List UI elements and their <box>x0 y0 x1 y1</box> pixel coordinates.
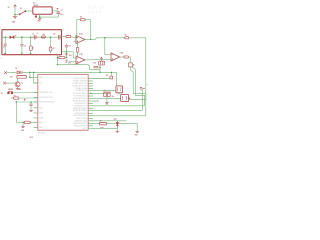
junction J20 <box>30 101 32 103</box>
net flag ref mark <box>66 61 68 63</box>
junction J6 <box>30 36 32 38</box>
wire feedback left top <box>77 19 81 21</box>
ground G5 <box>21 125 25 128</box>
wire to C7 <box>4 37 6 44</box>
wire row to IC pin <box>16 101 38 103</box>
diode D1 pair <box>10 36 14 39</box>
pin stub right PD3(PCINT19/INT1) <box>88 100 93 102</box>
wire IC pin row 120 <box>93 120 126 122</box>
wire rail1 main <box>22 71 117 73</box>
wire R5 to right vertical net <box>129 38 146 116</box>
svg-text:T2: T2 <box>21 83 23 85</box>
pin stub right PC2(ADC2/PCINT10) <box>88 83 93 85</box>
pin stub left AREF <box>34 112 38 114</box>
svg-text:▌▄▌▌ ▌▀▌: ▌▄▌▌ ▌▀▌ <box>88 10 102 14</box>
svg-text:C8: C8 <box>24 46 26 48</box>
junction feedback minus <box>76 37 77 38</box>
wire regulator out to C1 <box>52 10 58 12</box>
op-amp IC3D input marks <box>77 58 78 63</box>
capacitor C13 <box>29 104 32 106</box>
junction J16 <box>33 72 35 74</box>
pin stub right PB5(SCK/PCINT5) <box>88 125 93 127</box>
wire R13 to IC pin <box>30 121 38 123</box>
junction J12 <box>66 51 68 53</box>
wire IC xtal1 <box>93 92 103 94</box>
wire battery to node <box>14 9 16 15</box>
svg-text:PD0(PCINT16/RXD): PD0(PCINT16/RXD) <box>73 93 87 95</box>
battery G1 symbol <box>13 17 17 19</box>
svg-text:2.5V: 2.5V <box>68 63 71 65</box>
capacitor C10 series <box>58 35 60 39</box>
wire node to switch <box>15 14 20 16</box>
wire R7 to IC pin <box>19 97 38 99</box>
pin dot reset net <box>19 89 20 90</box>
junction J5 <box>21 36 23 38</box>
junction J8 <box>104 37 106 39</box>
wire T2 emitter to gnd <box>17 87 19 89</box>
pin stub right PC0(ADC0/PCINT8) <box>88 78 93 80</box>
junction J4c <box>30 53 31 54</box>
svg-text:C11: C11 <box>53 48 56 50</box>
ground G4 bar2 <box>106 103 108 105</box>
svg-text:+: + <box>147 84 148 86</box>
ground G4 <box>105 101 109 104</box>
wire C12 top stub <box>65 43 67 45</box>
svg-text:GND: GND <box>21 130 24 132</box>
wire opamp1 plus down <box>77 41 79 47</box>
junction J4b <box>21 53 22 54</box>
svg-text:PD1(PCINT17/TXD): PD1(PCINT17/TXD) <box>73 96 87 98</box>
svg-text:C1: C1 <box>61 10 63 12</box>
wire opamp2 plus stub <box>69 61 77 63</box>
regulator gnd pad square <box>35 16 37 18</box>
junction J14 <box>99 72 101 74</box>
wire C7 to module gnd <box>4 46 6 54</box>
pin stub right PB4(MISO/PCINT4) <box>88 122 93 124</box>
svg-text:C10: C10 <box>53 33 56 35</box>
svg-text:D3: D3 <box>15 68 17 70</box>
junction J11 <box>57 64 58 65</box>
receiver module box U2 <box>2 30 62 55</box>
wire R12 to opamp2 <box>77 52 79 56</box>
capacitor C7 <box>4 44 7 46</box>
wire LED cathode to IC <box>93 127 118 129</box>
svg-text:78L05: 78L05 <box>33 5 38 7</box>
svg-text:S1: S1 <box>20 8 22 10</box>
pin stub right PD1(PCINT17/TXD) <box>88 95 93 97</box>
pin stub right PC1(ADC1/PCINT9) <box>88 80 93 82</box>
junction J10 <box>66 57 68 59</box>
junction J7 <box>50 36 52 38</box>
capacitor C1 polarized <box>57 8 61 14</box>
wire to R11 left <box>57 57 58 59</box>
junction feedback output <box>90 39 91 40</box>
wire module bottom pin stub <box>56 55 58 58</box>
pin stub right PD7(PCINT23/AIN1) <box>88 109 93 111</box>
op-amp IC3A input marks <box>77 38 78 42</box>
svg-text:100u: 100u <box>60 14 63 16</box>
wire C11 to module gnd <box>50 51 52 53</box>
svg-text:PD4(PCINT20/T0): PD4(PCINT20/T0) <box>75 103 88 105</box>
inductor L1 <box>30 46 33 51</box>
push button S2 <box>8 91 13 94</box>
pin stub right PB1(OC1A/PCINT1) <box>88 114 93 116</box>
op-amp IC3B input marks <box>112 55 113 60</box>
wire J8 down to opamp3 <box>104 38 106 55</box>
svg-text:R9: R9 <box>43 34 45 36</box>
R13 pin lead right <box>30 121 32 123</box>
pin dot net right <box>143 88 144 89</box>
transistor box T1 inner <box>123 96 127 100</box>
svg-text:R7: R7 <box>14 95 16 97</box>
ground G9 <box>116 130 120 133</box>
svg-text:PB5(SCK/PCINT5): PB5(SCK/PCINT5) <box>74 125 87 127</box>
wire opamp3 output <box>120 56 124 58</box>
wire return row 3 <box>93 89 142 111</box>
pin stub left ADC6 <box>34 121 38 123</box>
resistor R13 <box>24 121 30 123</box>
svg-text:22p: 22p <box>112 96 114 98</box>
crystal Q1 <box>103 92 111 96</box>
wire lower rail to vcc cluster <box>57 65 100 70</box>
wire C1 bottom to gnd rail <box>57 14 59 18</box>
pin stub right PD4(PCINT20/T0) <box>88 103 93 105</box>
pin dot T1 <box>129 98 130 99</box>
wire IC top pin to JP2 <box>93 78 110 80</box>
wire IC stub row <box>93 100 99 102</box>
svg-text:Q1: Q1 <box>104 90 106 92</box>
diode D5 square <box>129 63 133 67</box>
wire OK1 to T2 <box>17 78 19 81</box>
wire vcc cluster to rail <box>99 65 101 72</box>
LED D4 <box>116 121 119 128</box>
pin stub right PD5(PCINT21/T1) <box>88 105 93 107</box>
svg-text:U2: U2 <box>0 57 2 59</box>
pin dot D5 <box>133 64 134 65</box>
svg-text:RESET: RESET <box>8 89 13 91</box>
ground G8 <box>135 130 139 133</box>
wire to T2 base <box>6 82 15 84</box>
wire D5 down right staircase <box>131 67 146 99</box>
wire R7 left stub <box>11 97 14 99</box>
R13 pin lead left <box>23 121 25 123</box>
wire LED to gnd <box>116 128 118 131</box>
wire gnd rail under regulator <box>40 16 59 18</box>
connector box SV1 inner <box>118 87 121 91</box>
pin stub left AVCC <box>34 107 38 109</box>
junction J23 <box>22 122 23 123</box>
wire R8 to LED <box>106 123 115 125</box>
wire to C11 <box>50 37 52 47</box>
svg-text:GND: GND <box>37 21 40 23</box>
svg-text:PB2(OC1B/SS): PB2(OC1B/SS) <box>76 118 87 120</box>
svg-text:OK1: OK1 <box>10 77 13 79</box>
svg-text:C9: C9 <box>32 33 34 35</box>
ground G6 <box>29 109 33 112</box>
wire switch to regulator <box>26 10 33 12</box>
optocoupler OK1 <box>17 75 26 78</box>
wire R11 right <box>65 57 67 59</box>
wire rail2 to IC pin <box>30 76 38 78</box>
svg-text:PB4(MISO/PCINT4): PB4(MISO/PCINT4) <box>73 123 87 125</box>
resistor R4 <box>66 36 71 38</box>
junction J15 <box>29 72 31 74</box>
net flag X3 <box>3 82 6 85</box>
wire to R13 <box>16 121 24 123</box>
resistor R8 <box>100 122 107 125</box>
C9 pin lead left <box>32 36 35 38</box>
wire IC to T1 box <box>93 97 121 99</box>
junction J4 <box>4 53 6 55</box>
wire module signal line <box>2 36 61 38</box>
pin stub left PB7(XTAL2/TOSC2) <box>34 97 38 99</box>
capacitor C9 series <box>34 35 36 39</box>
junction J9 <box>57 57 59 59</box>
wire Q1 to gnd <box>106 96 108 102</box>
resistor R7 <box>13 97 18 99</box>
jumper JP2 <box>110 76 113 79</box>
wire branch to IC pin <box>34 82 38 84</box>
pin stub right PC4(ADC4/SDA) <box>88 88 93 90</box>
wire rail1 to rail2 <box>29 72 31 77</box>
supply arrow VCC2 <box>140 87 142 90</box>
pin stub right PB0(PCINT0/ICP) <box>88 112 93 114</box>
connector box SV1 <box>116 86 123 93</box>
wire down from R11 left <box>56 58 58 65</box>
svg-text:PD5(PCINT21/T1): PD5(PCINT21/T1) <box>75 105 88 107</box>
svg-text:R2: R2 <box>80 17 82 19</box>
pin stub right PD2(PCINT18/INT0) <box>88 97 93 99</box>
wire R6 to D5 <box>129 57 131 63</box>
wire to C13 <box>30 102 32 104</box>
junction J17 <box>29 77 31 79</box>
wire C13 to gnd <box>30 106 32 110</box>
net flag X1 <box>4 71 7 74</box>
pin stub right PD6(PCINT22/AIN0) <box>88 107 93 109</box>
microcontroller IC1 box <box>38 74 88 130</box>
pin stub left GND <box>34 126 38 128</box>
wire rail1 branch down <box>33 72 35 83</box>
capacitor C12 <box>65 45 68 47</box>
op-amp IC3B <box>111 53 120 61</box>
wire LED row to right gnd <box>119 124 137 131</box>
op-amp IC3A <box>76 35 85 43</box>
wire rail1 to JP2 <box>110 72 112 76</box>
wire rail1 left <box>7 71 17 73</box>
wire S2 to IC reset <box>13 92 38 94</box>
supply mark on reset row <box>24 99 26 101</box>
svg-text:PC6: PC6 <box>39 77 42 79</box>
wire IC to R8 <box>93 122 100 124</box>
wire return row 2 <box>93 105 145 107</box>
junction J18 <box>111 72 112 73</box>
wire C12 to pin wire <box>65 47 67 52</box>
wire R4 to opamp1 minus <box>71 36 76 39</box>
ground G3 <box>65 54 69 55</box>
svg-text:▌▌▄▀▌ ▀▄▌▌: ▌▌▄▀▌ ▀▄▌▌ <box>88 5 105 9</box>
ground G2 <box>38 19 42 20</box>
wire staircase second <box>132 67 145 106</box>
svg-text:PB0(PCINT0/ICP): PB0(PCINT0/ICP) <box>75 113 88 115</box>
wire to L1 <box>30 37 32 46</box>
junction J19 <box>15 101 17 103</box>
battery stub <box>14 15 16 17</box>
junction J3 <box>4 36 6 38</box>
wire opamp1 plus stub <box>74 40 76 42</box>
wire opamp3 minus <box>105 54 111 56</box>
svg-text:PD2(PCINT18/INT0): PD2(PCINT18/INT0) <box>73 98 87 100</box>
pin stub left PB6(XTAL1/TOSC1) <box>34 92 38 94</box>
pin stub left VCC <box>34 82 38 84</box>
pin stub right ADC7 <box>88 127 93 129</box>
pin stub left PC6(RESET/PCINT14) <box>34 101 38 103</box>
svg-text:R10: R10 <box>93 62 96 64</box>
svg-text:D9: D9 <box>15 35 17 37</box>
svg-text:GND: GND <box>69 55 72 57</box>
wire down left column <box>15 102 17 122</box>
ground G7 <box>16 88 20 91</box>
capacitor C8 <box>20 44 23 46</box>
pin stub right PB3(MOSI/OC2A) <box>88 120 93 122</box>
wire opamp2 minus stub <box>73 57 76 59</box>
wire to gnd bottom left <box>22 122 24 126</box>
junction J1 <box>14 14 16 16</box>
C9 pin lead right <box>36 36 38 38</box>
wire IC to T1 box top <box>93 89 116 91</box>
transistor T2 <box>15 82 20 87</box>
wire opamp2 out to opamp3 <box>85 58 111 61</box>
wire C1 top stub <box>57 11 59 12</box>
svg-text:░░░░: ░░░░ <box>120 5 127 8</box>
junction J21 <box>90 93 91 94</box>
wire C8 to module gnd <box>21 46 23 54</box>
svg-text:C12: C12 <box>68 46 71 48</box>
wire feedback right vertical <box>90 20 92 40</box>
component X2 bar <box>94 66 98 68</box>
transistor box T1 <box>121 94 129 101</box>
svg-text:PD3(PCINT19/INT1): PD3(PCINT19/INT1) <box>73 101 87 103</box>
switch S1 <box>19 11 26 15</box>
wire feedback right top <box>85 19 91 21</box>
wire output to R5 <box>95 38 125 40</box>
svg-text:R5: R5 <box>125 35 127 37</box>
supply arrow VCC1 <box>100 57 103 61</box>
resistor R6 <box>124 56 129 58</box>
svg-text:S2: S2 <box>1 93 3 95</box>
wire L1 to module gnd <box>30 51 32 54</box>
op-amp IC3D <box>76 56 85 64</box>
wire regulator gnd pin <box>39 14 41 17</box>
svg-text:PC6(RESET/PCINT14): PC6(RESET/PCINT14) <box>39 102 55 104</box>
resistor C11 <box>49 47 52 51</box>
supply +9V arrow P1 <box>14 5 17 9</box>
wire feedback left vertical <box>76 20 78 38</box>
pin stub right PC3(ADC3/PCINT11) <box>88 85 93 87</box>
wire SV1 to T1 <box>118 93 120 95</box>
svg-text:1n: 1n <box>37 33 39 35</box>
resistor R9 <box>41 36 45 38</box>
wire module pin to opamp2 <box>62 51 73 53</box>
wire return row 4 <box>93 115 146 117</box>
wire J12 down to R11 <box>66 52 68 58</box>
junction J13 <box>99 67 101 69</box>
trimmer R10 <box>99 61 105 65</box>
svg-text:JP2: JP2 <box>106 75 109 77</box>
wire to opamp2 minus <box>72 52 74 58</box>
wire rail1 down to T1 box <box>116 72 118 86</box>
svg-text:GND: GND <box>135 134 138 136</box>
resistor R2 <box>80 19 85 21</box>
diode D3 <box>17 71 22 74</box>
pin stub right PB2(OC1B/SS) <box>88 117 93 119</box>
pin stub right PD0(PCINT16/RXD) <box>88 92 93 94</box>
wire opamp1 output <box>85 39 95 41</box>
voltage regulator IC2 78L05 <box>33 7 52 14</box>
resistor R5 <box>125 37 129 39</box>
resistor R12 <box>76 47 79 52</box>
wire module out to R4 <box>62 36 66 38</box>
svg-text:C7: C7 <box>3 47 5 49</box>
junction J2 <box>39 16 41 18</box>
pin stub right PC5(ADC5/SCL) <box>88 89 93 91</box>
wire to C8 <box>21 37 23 44</box>
resistor R11 <box>59 56 65 58</box>
pin stub left AGND <box>34 117 38 119</box>
svg-text:9V: 9V <box>8 7 10 9</box>
wire return to T1 dot <box>129 98 146 100</box>
